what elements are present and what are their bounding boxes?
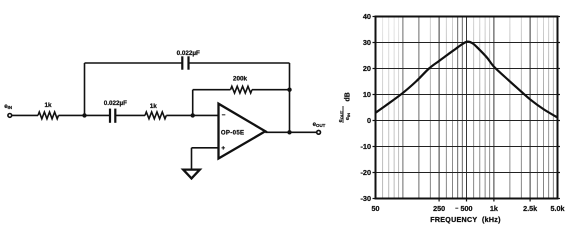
svg-text:1k: 1k <box>490 204 498 213</box>
svg-text:1k: 1k <box>44 102 52 109</box>
svg-text:30: 30 <box>363 38 371 47</box>
svg-text:-20: -20 <box>360 168 371 177</box>
svg-text:20: 20 <box>363 64 371 73</box>
svg-text:OP-05E: OP-05E <box>221 129 244 136</box>
svg-text:-10: -10 <box>360 142 371 151</box>
svg-text:0.022µF: 0.022µF <box>177 50 200 57</box>
svg-text:2.5k: 2.5k <box>523 204 537 213</box>
svg-text:FREQUENCY (kHz): FREQUENCY (kHz) <box>430 216 501 224</box>
svg-text:–: – <box>222 111 226 118</box>
svg-text:0: 0 <box>367 116 371 125</box>
svg-text:10: 10 <box>363 90 371 99</box>
svg-text:+: + <box>221 145 225 152</box>
svg-text:250: 250 <box>433 204 445 213</box>
svg-text:-30: -30 <box>360 194 371 203</box>
svg-text:1k: 1k <box>150 103 158 110</box>
svg-text:40: 40 <box>363 12 371 21</box>
svg-text:50: 50 <box>372 204 380 213</box>
svg-text:0.022µF: 0.022µF <box>104 100 127 107</box>
svg-text:200k: 200k <box>233 75 248 82</box>
svg-text:dB: dB <box>345 92 352 101</box>
svg-text:5.0k: 5.0k <box>551 204 565 213</box>
svg-text:500: 500 <box>461 204 473 213</box>
svg-text:eIN: eIN <box>345 113 351 120</box>
